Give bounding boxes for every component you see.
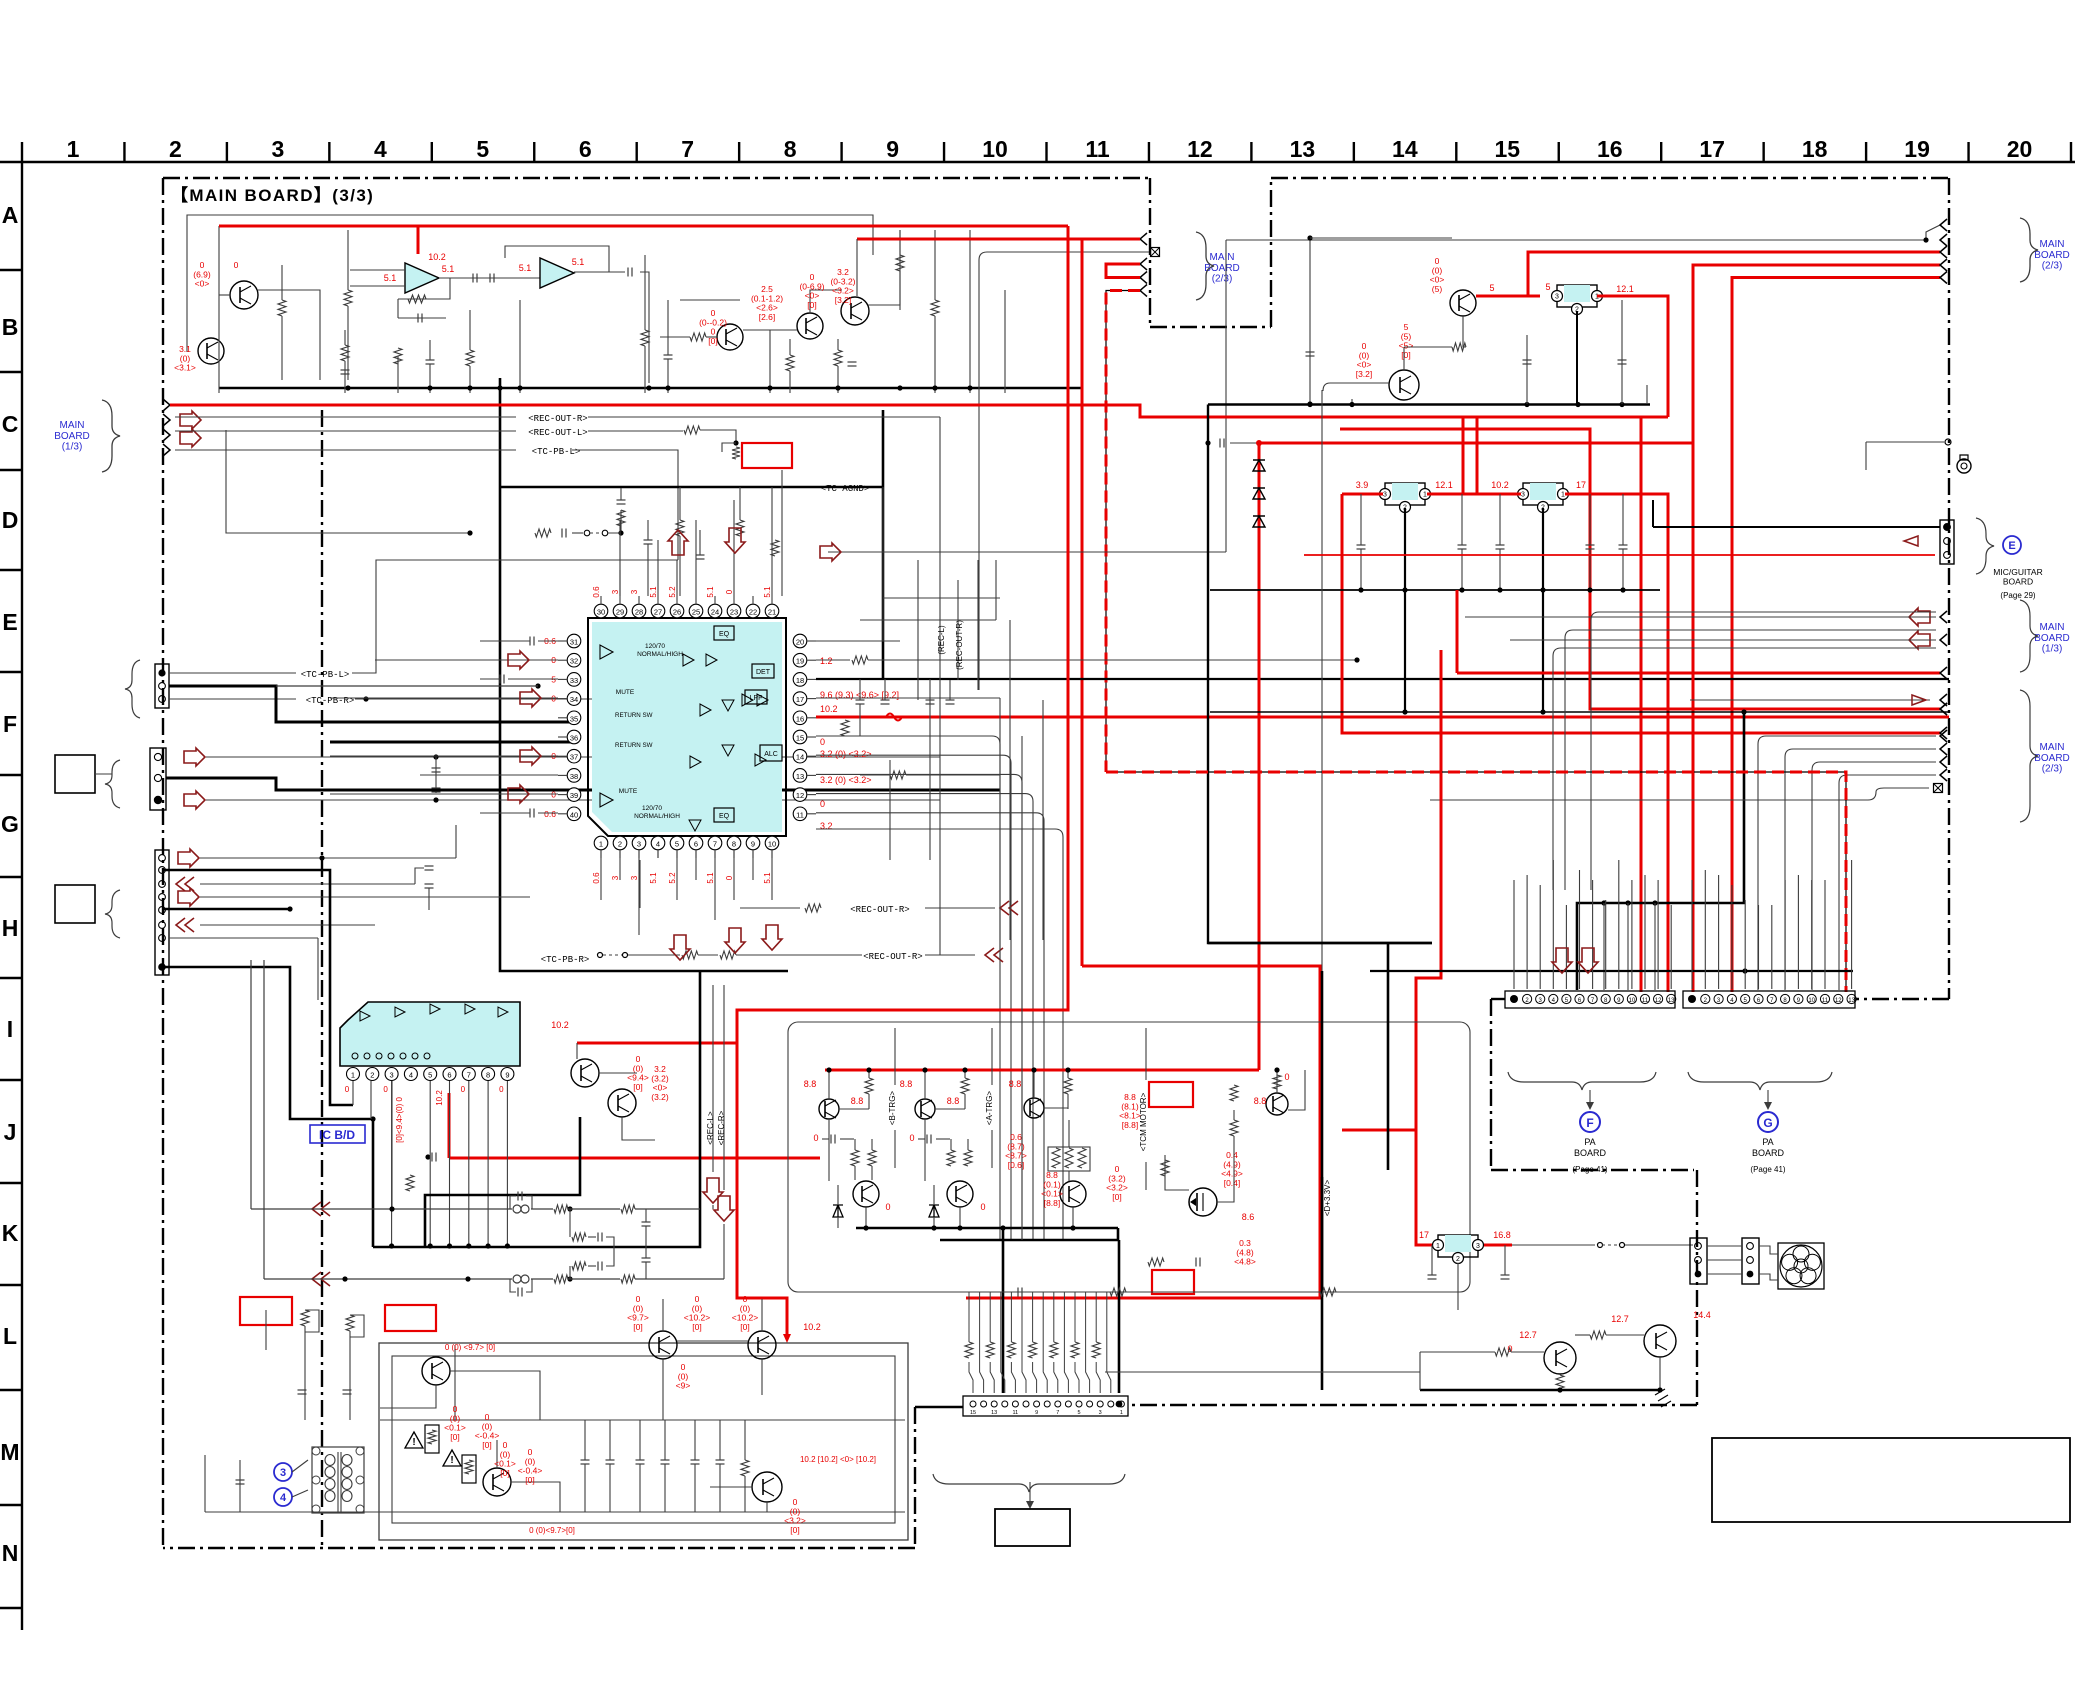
svg-text:26: 26: [673, 608, 681, 617]
wire gray long top: [1226, 239, 1926, 241]
red wire 10.2 branchA: [577, 1042, 737, 1045]
svg-text:8.6: 8.6: [1242, 1212, 1255, 1222]
wire net3: [680, 299, 740, 301]
psu outline inner: [392, 1356, 895, 1523]
svg-text:7: 7: [467, 1071, 471, 1080]
wire rec-out-l: [175, 430, 516, 432]
wire h238: [1310, 237, 1452, 239]
wire right vert: [969, 230, 971, 393]
warning triangles: [405, 1432, 423, 1448]
red wires cluster: [857, 238, 1140, 241]
res pairs: [851, 1150, 859, 1166]
rec l r drop wires: [712, 985, 714, 1172]
svg-text:0: 0: [725, 875, 734, 880]
svg-text:<TCM MOTOR>: <TCM MOTOR>: [1139, 1092, 1148, 1151]
transistor T4 wires: [1276, 1070, 1278, 1093]
svg-text:PA: PA: [1584, 1137, 1595, 1147]
wire h long1: [639, 860, 641, 908]
motor drive transistors: [819, 1099, 839, 1119]
wire q105 collector: [856, 239, 858, 296]
svg-text:32: 32: [570, 657, 578, 666]
svg-text:EQ: EQ: [719, 631, 730, 638]
svg-text:[0]: [0]: [1401, 350, 1410, 360]
svg-text:NORMAL/HIGH: NORMAL/HIGH: [637, 651, 683, 658]
svg-text:BOARD: BOARD: [2034, 753, 2070, 764]
svg-text:5.1: 5.1: [384, 273, 397, 283]
gray hwires J to strips: [1000, 1239, 1460, 1241]
svg-text:1: 1: [67, 136, 80, 162]
svg-text:20: 20: [796, 638, 804, 647]
svg-text:0: 0: [551, 694, 556, 704]
svg-text:11: 11: [796, 810, 804, 819]
resistor R114: [690, 333, 706, 341]
transistor M row: [752, 1472, 782, 1502]
red branch 1130: [1342, 1130, 1438, 1245]
svg-text:5: 5: [476, 136, 489, 162]
svg-text:5.1: 5.1: [706, 872, 715, 884]
svg-text:18: 18: [1802, 136, 1828, 162]
res triple bracket: [1048, 1147, 1090, 1171]
svg-text:!: !: [412, 1437, 415, 1448]
svg-text:20: 20: [2007, 136, 2033, 162]
wire top feedback loop: [187, 215, 873, 352]
revision box: [1712, 1438, 2070, 1522]
red rect L2: [385, 1305, 436, 1331]
svg-text:12: 12: [1655, 998, 1662, 1004]
svg-text:E: E: [2008, 540, 2015, 552]
blue F circle: [1580, 1112, 1600, 1132]
svg-text:MAIN: MAIN: [60, 420, 85, 431]
svg-text:38: 38: [570, 772, 578, 781]
svg-text:5.1: 5.1: [706, 586, 715, 598]
svg-text:[0]: [0]: [633, 1322, 642, 1332]
svg-text:<REC-OUT-L>: <REC-OUT-L>: [528, 428, 587, 438]
wire opamp1 fb: [398, 278, 450, 299]
caps H mid: [425, 883, 434, 885]
svg-text:BOARD: BOARD: [2003, 576, 2033, 586]
svg-text:【MAIN BOARD】(3/3): 【MAIN BOARD】(3/3): [171, 185, 374, 205]
wire fill horiz right of IC: [883, 597, 1000, 599]
svg-text:MUTE: MUTE: [616, 689, 635, 696]
svg-text:[0]: [0]: [708, 336, 717, 346]
svg-text:5: 5: [428, 1071, 432, 1080]
svg-text:10: 10: [768, 840, 776, 849]
svg-text:5: 5: [675, 840, 679, 849]
mosfet Q: [1189, 1188, 1217, 1216]
svg-text:16: 16: [1597, 136, 1623, 162]
svg-text:5.1: 5.1: [572, 257, 585, 267]
svg-text:G: G: [1763, 1116, 1772, 1130]
svg-text:30: 30: [597, 608, 605, 617]
svg-text:RETURN SW: RETURN SW: [615, 742, 653, 749]
svg-text:12.7: 12.7: [1611, 1314, 1629, 1324]
gray right risers: [1553, 648, 1936, 890]
svg-text:8: 8: [784, 136, 797, 162]
IC U301 left pins: [567, 634, 581, 648]
svg-text:11: 11: [1822, 998, 1829, 1004]
caps fan: [1428, 1274, 1437, 1276]
transformer T901: [312, 1447, 364, 1513]
svg-text:14: 14: [1392, 136, 1418, 162]
wire K line1: [312, 1202, 321, 1216]
svg-text:9: 9: [751, 840, 755, 849]
red dashed wire: [1106, 291, 1140, 773]
svg-text:5.1: 5.1: [649, 586, 658, 598]
svg-text:16.8: 16.8: [1493, 1230, 1511, 1240]
black bus midright: [1208, 405, 1432, 944]
svg-text:8: 8: [486, 1071, 490, 1080]
svg-text:39: 39: [570, 791, 578, 800]
wires H out: [200, 857, 456, 859]
svg-text:24: 24: [711, 608, 719, 617]
gray box motor section: [788, 1022, 1470, 1292]
red wire branch chevy252: [1528, 252, 1940, 296]
red rect K2: [1152, 1270, 1194, 1294]
svg-text:6: 6: [579, 136, 592, 162]
red vert reg1 out up: [1462, 417, 1465, 494]
svg-text:(2/3): (2/3): [2042, 764, 2063, 775]
regulator IC-fan: [1438, 1235, 1478, 1257]
red rect L1: [240, 1297, 292, 1325]
svg-text:[3.2]: [3.2]: [835, 295, 852, 305]
blue label IC B/D: [310, 1125, 365, 1143]
svg-text:D: D: [2, 507, 19, 533]
thick black H-col: [163, 870, 353, 1105]
svg-text:<0>: <0>: [195, 279, 210, 289]
svg-text:(REC-OUT-R): (REC-OUT-R): [955, 620, 964, 670]
red pin16 wire: [816, 716, 982, 719]
wire to E conn: [1653, 526, 1940, 528]
wire fill verticals right of IC: [917, 560, 919, 700]
svg-text:2: 2: [618, 840, 622, 849]
svg-text:8.8: 8.8: [947, 1096, 960, 1106]
svg-text:<A-TRG>: <A-TRG>: [985, 1091, 994, 1126]
red wires regulators mid: [1342, 493, 1383, 496]
regulator IC301: [1385, 483, 1425, 505]
wire net2: [258, 290, 320, 380]
wire q103-q104: [743, 329, 797, 331]
capacitor C113: [664, 354, 673, 356]
svg-text:F: F: [3, 711, 17, 737]
svg-text:BOARD: BOARD: [2034, 633, 2070, 644]
wire q104-q105 colls: [810, 290, 842, 313]
board inner dash border x322: [321, 410, 323, 1548]
gnd sym fan: [1655, 1389, 1671, 1407]
svg-text:22: 22: [749, 608, 757, 617]
svg-text:H: H: [2, 915, 19, 941]
psu caps right: [581, 1459, 590, 1461]
wire mid column: [519, 300, 521, 393]
svg-text:9: 9: [886, 136, 899, 162]
svg-text:[0]: [0]: [500, 1468, 509, 1478]
svg-text:0.6: 0.6: [592, 586, 601, 598]
caps on bus tr: [1526, 335, 1528, 404]
svg-text:N: N: [2, 1540, 19, 1566]
strip wires up: [969, 1362, 973, 1393]
svg-text:F: F: [1586, 1116, 1593, 1130]
wire vert col 620: [619, 520, 621, 596]
svg-text:3.9: 3.9: [1356, 480, 1369, 490]
thick black icbd bus: [373, 971, 700, 1247]
capacitor C110: [426, 359, 435, 361]
svg-text:0 (0)<9.7>[0]: 0 (0)<9.7>[0]: [529, 1526, 575, 1535]
svg-text:3: 3: [637, 840, 641, 849]
svg-text:<REC-R>: <REC-R>: [717, 1110, 726, 1145]
psu left wires: [239, 1460, 241, 1512]
svg-text:15: 15: [970, 1410, 976, 1416]
svg-text:3: 3: [272, 136, 285, 162]
svg-text:[2.6]: [2.6]: [759, 312, 776, 322]
svg-text:8.8: 8.8: [900, 1079, 913, 1089]
svg-text:19: 19: [796, 657, 804, 666]
svg-text:0: 0: [980, 1202, 985, 1212]
junction dots bus: [345, 385, 350, 390]
svg-text:[0]: [0]: [525, 1475, 534, 1485]
svg-text:MAIN: MAIN: [1210, 252, 1235, 263]
thick black strip feeder: [1577, 712, 1744, 990]
svg-text:0: 0: [813, 1133, 818, 1143]
xbox lower: [1430, 788, 1929, 800]
wire F 800: [206, 799, 940, 801]
svg-text:<REC-OUT-R>: <REC-OUT-R>: [863, 952, 922, 962]
wire q202 emitter: [1351, 399, 1353, 404]
board border main-board outline: [162, 178, 164, 1548]
svg-text:0: 0: [885, 1202, 890, 1212]
svg-text:BOARD: BOARD: [2034, 250, 2070, 261]
svg-text:11: 11: [1085, 136, 1110, 162]
IC B/D internals: [360, 1011, 370, 1021]
svg-text:1: 1: [1561, 492, 1565, 499]
gray bundle curves right mid: [1340, 756, 1490, 920]
transistor Q102: [198, 338, 224, 364]
IC B/D pins: [347, 1068, 360, 1081]
svg-text:120/70: 120/70: [642, 805, 662, 812]
svg-text:[0]: [0]: [633, 1082, 642, 1092]
wires off IC right: [816, 640, 900, 642]
svg-text:0 (0) <9.7> [0]: 0 (0) <9.7> [0]: [445, 1343, 495, 1352]
psu wires mid: [380, 1385, 436, 1408]
IC U301 internals: [600, 645, 613, 659]
svg-text:7: 7: [1056, 1410, 1059, 1416]
svg-text:10.2: 10.2: [551, 1020, 569, 1030]
ferrite bead2: [513, 1275, 521, 1283]
op-amp U102: [540, 258, 574, 288]
diodes on red column: [1253, 460, 1265, 471]
svg-text:5.1: 5.1: [763, 586, 772, 598]
wire icbd drops: [391, 1081, 393, 1245]
svg-text:<D+3.3V>: <D+3.3V>: [1323, 1180, 1332, 1217]
emitter wires: [865, 1207, 867, 1228]
svg-text:(1/3): (1/3): [2042, 644, 2063, 655]
svg-text:0: 0: [345, 1085, 350, 1094]
svg-text:5: 5: [1545, 282, 1550, 292]
svg-text:(Page 29): (Page 29): [2000, 591, 2035, 600]
red wire h966: [966, 966, 1320, 1298]
black bus top right: [1208, 403, 1650, 405]
IC U301 body: [592, 622, 782, 832]
wire bus riser: [500, 378, 788, 971]
left connector E/F block: [155, 664, 169, 708]
wire opamp1 fb2: [398, 317, 446, 319]
svg-text:10: 10: [982, 136, 1008, 162]
svg-text:34: 34: [570, 695, 578, 704]
psu opto boxes: [425, 1425, 439, 1453]
svg-text:[0]: [0]: [450, 1432, 459, 1442]
svg-text:(REC-L): (REC-L): [937, 625, 946, 655]
main board 2/3 lower right cluster: [1690, 699, 1930, 701]
strip1 wires above: [1513, 880, 1515, 989]
left connector row C chevrons: [163, 399, 170, 411]
svg-text:3.2 (0) <3.2>: 3.2 (0) <3.2>: [820, 775, 872, 785]
red dark arrow D: [820, 543, 841, 561]
red wires 2/3 lower: [1905, 708, 1940, 711]
svg-text:8.8: 8.8: [1009, 1079, 1022, 1089]
svg-text:[8.8]: [8.8]: [1044, 1198, 1061, 1208]
K ladder mid: [569, 1209, 571, 1237]
svg-text:3: 3: [630, 875, 639, 880]
svg-text:RETURN SW: RETURN SW: [615, 712, 653, 719]
main board 1/3 right cluster: [1909, 608, 1930, 626]
fan connectors: [1690, 1238, 1707, 1284]
svg-text:3: 3: [1383, 492, 1387, 499]
frame top ruler: [0, 161, 2075, 163]
blue E circle: [2003, 536, 2021, 554]
svg-text:3: 3: [611, 875, 620, 880]
red vert reg1 in to 2/3: [1342, 494, 1940, 733]
fan wiring: [1512, 1244, 1595, 1246]
svg-text:0: 0: [820, 737, 825, 747]
transistors fan drive: [1644, 1325, 1676, 1357]
dark red arrows down mid: [670, 935, 690, 960]
thick black J ell: [425, 1117, 580, 1247]
wire gray drop: [1225, 240, 1227, 432]
resistor R105: [344, 290, 352, 306]
svg-text:4: 4: [374, 136, 387, 162]
svg-text:13: 13: [796, 772, 804, 781]
svg-text:NORMAL/HIGH: NORMAL/HIGH: [634, 813, 680, 820]
res right: [890, 771, 906, 779]
svg-text:0: 0: [551, 790, 556, 800]
svg-text:7: 7: [681, 136, 694, 162]
svg-text:8.8: 8.8: [804, 1079, 817, 1089]
wire rec-out-r low: [598, 953, 603, 958]
svg-text:37: 37: [570, 753, 578, 762]
svg-text:4: 4: [280, 1492, 287, 1504]
svg-text:[0]: [0]: [740, 1322, 749, 1332]
wires from IC bottom: [600, 850, 602, 900]
svg-text:33: 33: [570, 676, 578, 685]
svg-text:10: 10: [1808, 998, 1815, 1004]
thick strip feeders: [1002, 1228, 1005, 1393]
left connector F/G block: [150, 748, 166, 810]
wire pin11 long: [816, 829, 1063, 1240]
thick black bus 943: [1208, 942, 1432, 945]
black h712: [1210, 711, 1949, 713]
svg-text:<REC-OUT-R>: <REC-OUT-R>: [528, 414, 587, 424]
gray curves bundle ic pins: [816, 736, 1000, 1240]
regulator IC201: [1557, 285, 1597, 307]
svg-text:[0]: [0]: [790, 1525, 799, 1535]
PA strip1: [1505, 991, 1675, 1008]
svg-text:11: 11: [1642, 998, 1649, 1004]
wire q101 base: [218, 226, 220, 393]
terminator xbox: [1151, 248, 1160, 257]
svg-text:11: 11: [1013, 1410, 1019, 1416]
wire net rows D: [226, 430, 470, 533]
svg-text:3: 3: [390, 1071, 394, 1080]
svg-text:0: 0: [499, 1085, 504, 1094]
below brace: [933, 1474, 1125, 1492]
svg-text:9: 9: [505, 1071, 509, 1080]
bottom strip connector: [963, 1396, 1128, 1416]
transistor Q202: [1389, 370, 1419, 400]
svg-text:<TC-PB-L>: <TC-PB-L>: [532, 447, 581, 457]
svg-text:(Page 41): (Page 41): [1750, 1165, 1785, 1174]
svg-text:8.8: 8.8: [1254, 1096, 1267, 1106]
svg-text:BOARD: BOARD: [1752, 1148, 1785, 1158]
dark red arrows F: [184, 748, 205, 766]
dark red arrow down IC: [725, 528, 745, 553]
svg-text:0: 0: [909, 1133, 914, 1143]
svg-text:2: 2: [1456, 1256, 1460, 1263]
svg-text:[8.8]: [8.8]: [1122, 1120, 1139, 1130]
left connector H block: [155, 850, 169, 975]
thick black rows H: [500, 939, 1208, 941]
svg-text:MUTE: MUTE: [619, 788, 638, 795]
svg-text:10.2: 10.2: [1491, 480, 1509, 490]
brace G: [1688, 1072, 1832, 1090]
psu outline outer: [379, 1343, 908, 1540]
svg-text:0: 0: [461, 1085, 466, 1094]
red dashed to strip underlay: [1106, 772, 1846, 992]
wire E connector area: [1940, 520, 1954, 564]
svg-text:5.2: 5.2: [668, 872, 677, 884]
wires F conn to right: [206, 756, 940, 758]
svg-text:16: 16: [796, 714, 804, 723]
IC U301 right pins: [793, 634, 807, 648]
svg-text:5: 5: [1489, 283, 1494, 293]
PA strip2: [1683, 991, 1855, 1008]
resistor at red rect: [722, 443, 736, 452]
wire vert col 782: [781, 470, 783, 596]
svg-text:A: A: [2, 202, 19, 228]
svg-text:3: 3: [1555, 294, 1559, 301]
svg-text:0: 0: [234, 260, 239, 270]
svg-text:28: 28: [635, 608, 643, 617]
svg-text:18: 18: [796, 676, 804, 685]
svg-text:1: 1: [1423, 492, 1427, 499]
wire D row right gray: [828, 551, 1226, 553]
caps right of IC: [856, 699, 865, 701]
gnd bus regs: [1210, 589, 1660, 591]
svg-text:LPF: LPF: [750, 695, 763, 702]
hollow arrows above strip: [1552, 948, 1572, 973]
svg-text:<9>: <9>: [676, 1381, 691, 1391]
red wires right cluster: [1693, 265, 1940, 992]
svg-text:13: 13: [1848, 998, 1855, 1004]
svg-text:10: 10: [1629, 998, 1636, 1004]
svg-text:10.2: 10.2: [435, 1090, 444, 1106]
svg-text:7: 7: [713, 840, 717, 849]
wires to IC top: [600, 595, 602, 597]
svg-text:1: 1: [1120, 1410, 1123, 1416]
resistor R111: [466, 350, 474, 366]
wire q202 col res: [1403, 347, 1405, 370]
svg-text:[0]: [0]: [482, 1440, 491, 1450]
wire right vert2: [1004, 290, 1006, 393]
svg-text:3: 3: [1476, 1243, 1480, 1250]
svg-text:0.6: 0.6: [592, 872, 601, 884]
